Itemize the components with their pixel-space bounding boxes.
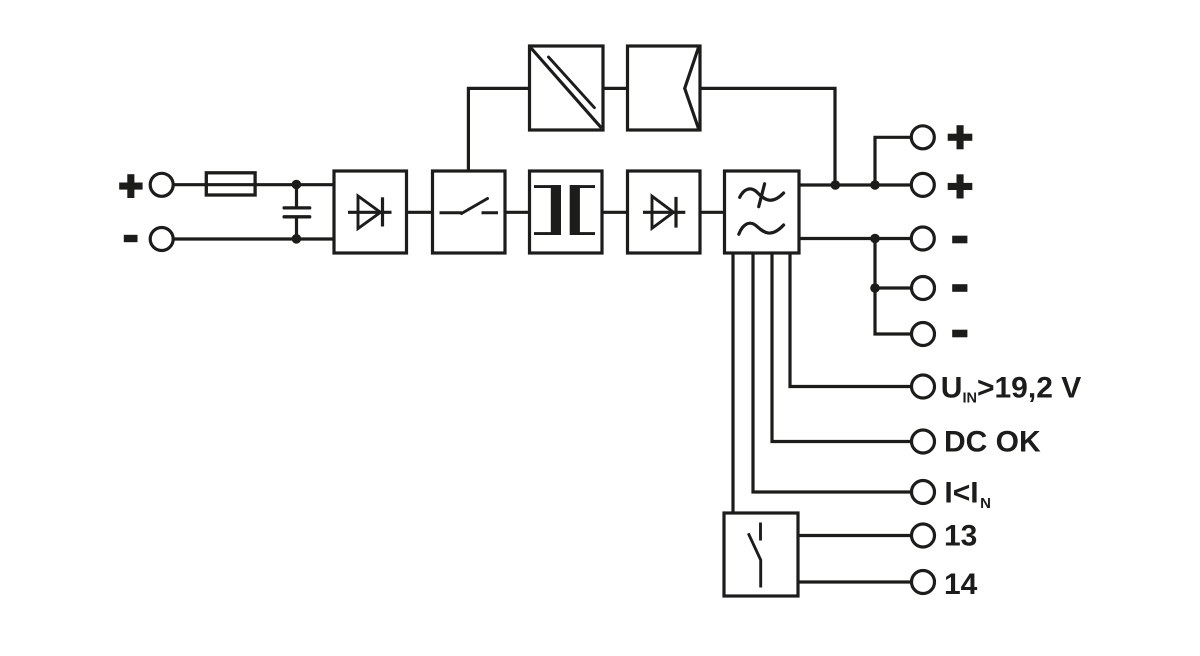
svg-text:13: 13 [944,519,977,552]
svg-text:UIN>19,2 V: UIN>19,2 V [941,371,1081,406]
svg-text:14: 14 [944,568,978,601]
svg-text:DC OK: DC OK [944,426,1041,459]
